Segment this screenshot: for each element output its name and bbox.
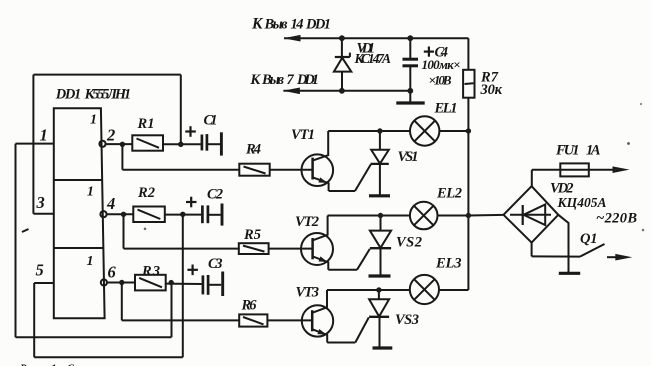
- svg-text:1: 1: [87, 254, 94, 269]
- svg-text:6: 6: [108, 263, 117, 282]
- svg-text:VS1: VS1: [398, 149, 419, 165]
- svg-text:Выв: Выв: [261, 72, 285, 88]
- svg-text:R4: R4: [245, 142, 261, 158]
- svg-text:R3: R3: [141, 264, 160, 280]
- svg-text:×10В: ×10В: [429, 73, 452, 88]
- svg-text:EL2: EL2: [436, 186, 462, 202]
- svg-text:VT1: VT1: [291, 127, 315, 143]
- svg-text:~220В: ~220В: [596, 211, 637, 227]
- svg-text:EL3: EL3: [435, 256, 462, 272]
- svg-text:2: 2: [106, 126, 115, 145]
- svg-text:R2: R2: [137, 185, 155, 201]
- svg-text:100мк×: 100мк×: [422, 57, 461, 72]
- svg-text:C1: C1: [204, 113, 218, 129]
- svg-text:К555ЛН1: К555ЛН1: [84, 87, 132, 103]
- svg-text:1: 1: [40, 126, 48, 145]
- svg-text:КС147А: КС147А: [354, 51, 392, 66]
- svg-text:К: К: [249, 72, 261, 88]
- svg-text:FU1: FU1: [555, 143, 580, 159]
- svg-text:VT3: VT3: [296, 285, 320, 301]
- svg-text:3: 3: [36, 193, 45, 212]
- svg-text:К: К: [251, 16, 264, 33]
- svg-text:1A: 1A: [586, 143, 601, 159]
- svg-text:DD1: DD1: [296, 72, 319, 88]
- svg-text:14: 14: [291, 17, 304, 33]
- svg-text:Q1: Q1: [580, 231, 598, 247]
- svg-text:C2: C2: [207, 187, 223, 203]
- svg-text:VS3: VS3: [395, 312, 419, 328]
- svg-text:DD1: DD1: [55, 87, 82, 103]
- svg-text:R5: R5: [243, 227, 261, 243]
- svg-text:VT2: VT2: [295, 214, 319, 230]
- svg-text:1: 1: [90, 113, 97, 128]
- svg-text:5: 5: [36, 261, 44, 280]
- svg-text:EL1: EL1: [434, 101, 458, 117]
- svg-text:4: 4: [106, 194, 115, 213]
- svg-text:30к: 30к: [480, 82, 503, 98]
- svg-text:1: 1: [87, 185, 94, 200]
- svg-text:КЦ405А: КЦ405А: [557, 195, 607, 210]
- svg-text:C3: C3: [208, 256, 223, 272]
- svg-text:R1: R1: [137, 116, 155, 132]
- svg-text:7: 7: [287, 72, 295, 88]
- svg-text:DD1: DD1: [305, 17, 331, 33]
- svg-text:Выв: Выв: [264, 17, 289, 33]
- svg-text:R6: R6: [241, 298, 258, 314]
- svg-text:VS2: VS2: [396, 235, 422, 251]
